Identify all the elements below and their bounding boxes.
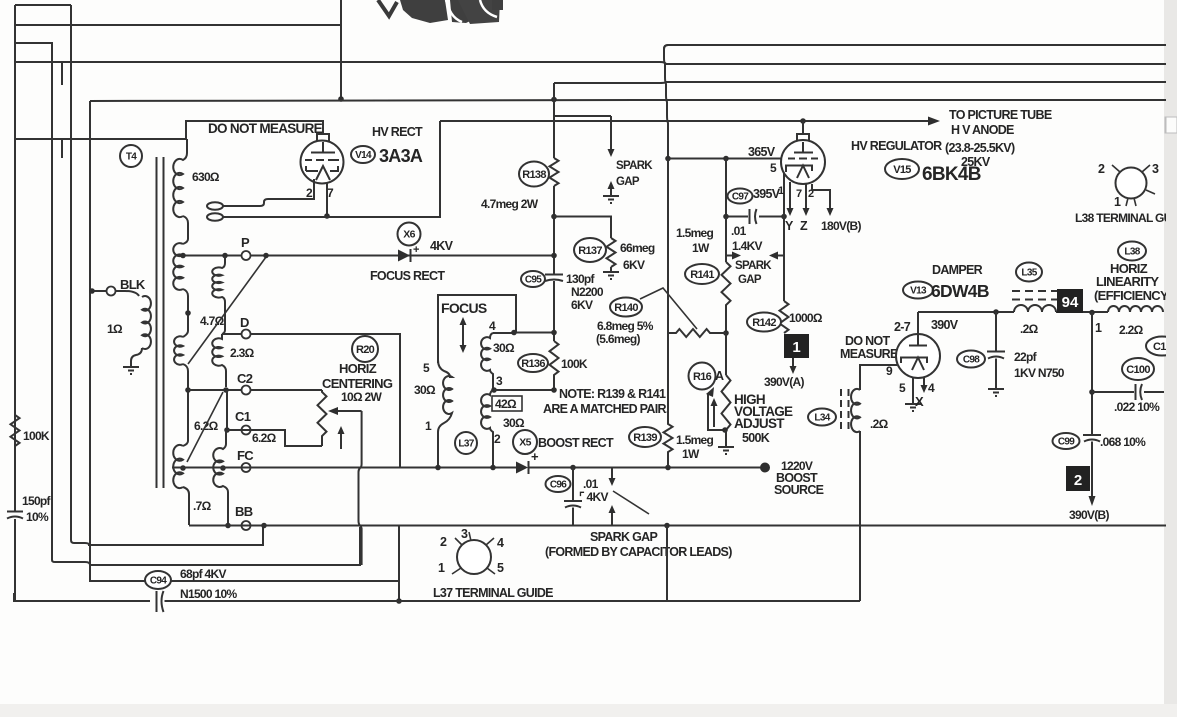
- svg-text:(23.8-25.5KV): (23.8-25.5KV): [945, 141, 1015, 155]
- svg-text:30Ω: 30Ω: [503, 416, 525, 430]
- BLK tap wire: [92, 291, 139, 296]
- R16A wiper: [706, 387, 723, 430]
- wire R137 branch: [554, 217, 611, 239]
- spark gap upper arrow: [610, 116, 612, 150]
- wire spark gap branch top: [554, 115, 611, 117]
- V13 plate: [909, 336, 927, 346]
- junction L38: [1089, 310, 1095, 316]
- svg-text:1: 1: [425, 419, 432, 433]
- svg-text:.01: .01: [583, 477, 599, 491]
- V15 topcap stub: [797, 121, 809, 142]
- svg-text:.01: .01: [731, 224, 747, 238]
- svg-text:42Ω: 42Ω: [495, 397, 517, 411]
- wire bottom line y601: [14, 593, 860, 601]
- BLK terminal: [107, 287, 116, 296]
- V15 plate: [794, 142, 813, 153]
- junction boost x438: [435, 465, 441, 471]
- svg-text:1.5meg: 1.5meg: [676, 433, 714, 447]
- svg-text:1Ω: 1Ω: [107, 322, 123, 336]
- diode X5 boost rect: [516, 461, 529, 474]
- R20 wiper arrow: [328, 407, 362, 415]
- spark gap capacitor leads up arrow: [611, 512, 613, 525]
- junction boost x573: [570, 465, 576, 471]
- junction 365V: [665, 156, 671, 162]
- wire x668 down to R140 junction: [667, 159, 669, 334]
- resistor R138: [550, 158, 559, 186]
- svg-text:C1: C1: [235, 409, 251, 424]
- svg-text:68pf 4KV: 68pf 4KV: [180, 567, 226, 581]
- wire rail x90 down to y581 then right to x399: [90, 101, 399, 581]
- wire cathode line y216 to box right riser: [223, 121, 440, 217]
- svg-text:4KV: 4KV: [430, 239, 454, 253]
- svg-text:1.4KV: 1.4KV: [732, 239, 763, 253]
- wire riser x667 BB to bottom: [666, 526, 668, 602]
- leader diagonal P to winding: [188, 257, 266, 364]
- wire 365V line: [668, 158, 781, 160]
- wire R137 to ground: [610, 267, 612, 272]
- resistor 100K left rail: [11, 415, 20, 446]
- svg-text:6.2Ω: 6.2Ω: [252, 431, 277, 445]
- boost source terminal: [760, 463, 770, 473]
- svg-text:SOURCE: SOURCE: [774, 483, 824, 497]
- svg-text:C100: C100: [1126, 364, 1150, 376]
- svg-text:180V(B): 180V(B): [821, 219, 861, 233]
- L37 terminal guide circle: [452, 532, 495, 574]
- svg-text:R139: R139: [633, 432, 657, 444]
- L35 core dashes: [1012, 291, 1057, 300]
- BB terminal: [242, 521, 251, 530]
- capacitor C99: [1083, 435, 1101, 497]
- wire terminal 4: [493, 332, 516, 334]
- T4 winding stub 1: [183, 216, 188, 244]
- svg-text:R138: R138: [522, 169, 546, 181]
- svg-text:4: 4: [497, 536, 504, 550]
- svg-text:FC: FC: [237, 448, 254, 463]
- svg-text:FOCUS: FOCUS: [441, 300, 487, 316]
- svg-text:1: 1: [1095, 321, 1102, 335]
- svg-text:⌜ 4KV: ⌜ 4KV: [579, 490, 608, 504]
- svg-text:10Ω 2W: 10Ω 2W: [341, 390, 382, 404]
- svg-text:1: 1: [438, 561, 445, 575]
- L37 designation: [455, 432, 477, 454]
- wire x860 down to bottom line: [859, 431, 861, 601]
- V14 cathode heater: [306, 166, 338, 180]
- wire pin2 to 180V: [812, 184, 830, 196]
- FOCUS box outline: [438, 295, 516, 363]
- svg-text:L34: L34: [814, 413, 830, 424]
- T4 winding bottom to BB: [183, 487, 189, 525]
- wire C97 line: [726, 216, 784, 218]
- wire V13 top: [917, 312, 919, 336]
- junction P line left: [180, 253, 186, 259]
- junction C97 left: [723, 214, 729, 220]
- junction P line right: [263, 253, 269, 259]
- potentiometer R20 body: [318, 390, 327, 446]
- svg-text:390V: 390V: [931, 318, 959, 332]
- spark gap arrows mid: [726, 252, 784, 260]
- junction FC tap right: [220, 465, 226, 471]
- svg-text:2: 2: [1098, 162, 1105, 176]
- svg-text:6DW4B: 6DW4B: [931, 281, 989, 301]
- L34 designation: [808, 409, 836, 426]
- wire C2 to C1 riser: [226, 390, 228, 430]
- svg-text:ARE A MATCHED PAIR.: ARE A MATCHED PAIR.: [543, 402, 669, 416]
- winding P-D (right column upper): [212, 256, 225, 335]
- resistor R137: [607, 238, 616, 267]
- R20 adjust arrow: [340, 433, 342, 449]
- svg-text:GAP: GAP: [616, 176, 640, 188]
- label 42ohm boxed: [492, 396, 522, 411]
- C97 designation: [728, 189, 753, 204]
- svg-text:HV RECT: HV RECT: [372, 125, 423, 139]
- transformer T4 designation: [120, 145, 142, 167]
- wire bus y64 right section (jog at x664): [660, 62, 1177, 64]
- svg-text:1000Ω: 1000Ω: [789, 311, 823, 325]
- svg-text:150pf: 150pf: [22, 494, 52, 508]
- V14 plate: [311, 142, 335, 153]
- junction BB x667: [664, 523, 670, 529]
- wire bus y83 from x554 riser: [554, 82, 1177, 83]
- terminal box 2: [1066, 466, 1090, 491]
- svg-text:1KV N750: 1KV N750: [1014, 366, 1065, 380]
- winding 2.3ohm: [212, 334, 226, 387]
- svg-text:P: P: [241, 235, 250, 250]
- wire tick x62 upper: [61, 63, 63, 85]
- svg-text:GAP: GAP: [738, 274, 762, 286]
- resistor R139: [664, 333, 673, 468]
- svg-text:4: 4: [928, 381, 935, 395]
- junction x554 y332: [551, 330, 557, 336]
- svg-text:(FORMED BY CAPACITOR LEADS): (FORMED BY CAPACITOR LEADS): [545, 545, 732, 559]
- svg-text:R16: R16: [693, 371, 712, 383]
- svg-text:630Ω: 630Ω: [192, 170, 220, 184]
- capacitor C95: [545, 275, 563, 282]
- svg-text:BOOST RECT: BOOST RECT: [538, 436, 614, 450]
- diode X6 focus rect: [398, 249, 411, 262]
- C1 line to centering pot bottom: [227, 430, 322, 446]
- V13 cathode: [901, 358, 927, 371]
- wire HV anode line y121: [440, 120, 930, 122]
- svg-text:X: X: [915, 394, 924, 409]
- capacitor C100: [1136, 384, 1143, 400]
- scan edge band right: [1164, 0, 1177, 717]
- arrow 390VA: [792, 358, 794, 367]
- svg-text:FOCUS RECT: FOCUS RECT: [370, 269, 445, 283]
- R142 designation: [747, 313, 781, 332]
- leader spark gap bottom: [613, 491, 649, 514]
- svg-text:R141: R141: [690, 269, 714, 281]
- svg-text:5: 5: [423, 361, 430, 375]
- junction FC tap left: [180, 465, 186, 471]
- svg-text:3: 3: [496, 374, 503, 388]
- svg-text:9: 9: [886, 364, 893, 378]
- wire R141 to pot: [725, 333, 727, 375]
- arrow Z: [805, 183, 807, 196]
- svg-text:C96: C96: [550, 480, 567, 491]
- svg-text:1.5meg: 1.5meg: [676, 226, 714, 240]
- L34 core dashes: [841, 389, 849, 431]
- D tap line to R20 riser: [222, 334, 400, 467]
- svg-text:HV REGULATOR: HV REGULATOR: [851, 139, 942, 153]
- junction V15 topcap: [800, 118, 806, 124]
- svg-text:C94: C94: [150, 576, 167, 587]
- junction BLK: [89, 288, 95, 294]
- C2 terminal: [242, 386, 251, 395]
- wire riser x664 with jogs: [664, 45, 668, 158]
- junction C1: [224, 427, 230, 433]
- svg-text:DAMPER: DAMPER: [932, 263, 983, 277]
- R139 designation: [629, 427, 661, 447]
- junction C100: [1089, 389, 1095, 395]
- winding 1ohm: [142, 296, 151, 349]
- svg-text:130pf: 130pf: [566, 272, 596, 286]
- svg-text:.022 10%: .022 10%: [1114, 400, 1160, 414]
- svg-text:L38: L38: [1124, 247, 1140, 258]
- wire x784 pin to R142: [783, 173, 785, 301]
- C1 terminal: [242, 426, 251, 435]
- capacitor C96: [564, 468, 582, 526]
- junction C2 tap: [185, 387, 191, 393]
- svg-text:66meg: 66meg: [620, 241, 655, 255]
- spark gap capacitor leads down arrow: [611, 468, 613, 480]
- R141 designation: [685, 264, 719, 284]
- svg-text:395V: 395V: [753, 187, 781, 201]
- junction winding stub y313: [185, 310, 191, 316]
- R16 designation: [689, 363, 716, 390]
- FOCUS adjust double arrow: [460, 317, 467, 353]
- L37 winding 30ohm mid: [481, 333, 493, 390]
- wire x554 riser top: [553, 83, 555, 158]
- svg-text:2.2Ω: 2.2Ω: [1119, 323, 1144, 337]
- svg-text:2.3Ω: 2.3Ω: [230, 346, 255, 360]
- wire BB line y525: [189, 525, 1177, 527]
- R138 designation: [519, 162, 549, 187]
- svg-text:V13: V13: [910, 286, 927, 297]
- junction boost x493: [490, 465, 496, 471]
- junction boost x668: [665, 465, 671, 471]
- svg-text:SPARK: SPARK: [735, 260, 772, 272]
- wire stub y43 and rail x52 down to y562 then right: [15, 43, 360, 565]
- svg-text:A: A: [715, 369, 724, 383]
- svg-text:R136: R136: [521, 358, 545, 370]
- svg-text:NOTE: R139 & R141: NOTE: R139 & R141: [559, 387, 666, 401]
- svg-text:500K: 500K: [742, 431, 770, 445]
- svg-text:LINEARITY: LINEARITY: [1096, 274, 1159, 289]
- junction t4 right: [511, 330, 517, 336]
- T4 winding section 3 (4.7ohm): [174, 336, 183, 364]
- svg-text:2: 2: [1074, 472, 1082, 489]
- FC terminal: [242, 463, 251, 472]
- spark gap lower arrow: [610, 188, 612, 196]
- junction R141 bottom: [723, 330, 729, 336]
- svg-text:H V ANODE: H V ANODE: [951, 123, 1014, 137]
- T4 winding stub 2: [183, 289, 188, 337]
- wire bus y100 from x90 corner: [90, 100, 1177, 101]
- heater pigtail lower: [207, 213, 223, 221]
- svg-text:6.8meg 5%: 6.8meg 5%: [597, 319, 654, 333]
- ground spark gap: [603, 196, 619, 203]
- svg-text:7: 7: [327, 186, 334, 200]
- photo fragment top center: [378, 0, 503, 24]
- L34 winding: [851, 389, 860, 432]
- svg-text:94: 94: [1062, 294, 1079, 311]
- wire damper top line y312: [918, 311, 1108, 313]
- svg-text:DO NOT: DO NOT: [845, 334, 890, 348]
- resistor R141: [722, 262, 731, 333]
- D terminal: [242, 330, 251, 339]
- wire bus y45 right from riser x664: [664, 45, 1177, 49]
- svg-text:3: 3: [461, 527, 468, 541]
- svg-text:C97: C97: [732, 192, 749, 203]
- svg-text:TO PICTURE TUBE: TO PICTURE TUBE: [949, 108, 1052, 122]
- svg-text:5: 5: [899, 381, 906, 395]
- P tap line with X6: [183, 255, 554, 257]
- wire rail x71 down to y542 then right to BB riser: [71, 5, 263, 545]
- wire t4 to C95 column: [516, 332, 554, 334]
- svg-text:DO NOT MEASURE: DO NOT MEASURE: [208, 121, 323, 136]
- junction pin7: [324, 213, 330, 219]
- wire bus y62 left section: [15, 61, 660, 63]
- transformer core: [157, 157, 164, 488]
- resistor R140 horizontal: [668, 329, 726, 337]
- svg-text:2: 2: [440, 535, 447, 549]
- scan edge band bottom overlay: [0, 704, 1177, 717]
- junction BB mid: [225, 523, 231, 529]
- svg-text:SPARK GAP: SPARK GAP: [590, 530, 657, 544]
- svg-text:R142: R142: [752, 317, 776, 329]
- svg-text:.068 10%: .068 10%: [1100, 435, 1146, 449]
- svg-text:6KV: 6KV: [623, 258, 645, 272]
- scan edge band bottom: [0, 704, 1177, 717]
- wire x726 through spark gap: [725, 217, 727, 263]
- svg-text:X5: X5: [519, 437, 531, 449]
- wire C100 line: [1092, 391, 1164, 393]
- tube V13 envelope: [896, 334, 940, 378]
- leader R140: [640, 288, 697, 329]
- svg-text:22pf: 22pf: [1014, 350, 1038, 364]
- svg-text:2-7: 2-7: [894, 320, 911, 334]
- C95 designation: [521, 271, 545, 287]
- svg-text:100K: 100K: [23, 429, 50, 443]
- wire V13 pin9: [860, 365, 897, 390]
- R16A adjust arrow: [713, 405, 715, 427]
- L35 coil: [1014, 305, 1056, 312]
- svg-text:Z: Z: [800, 219, 808, 233]
- terminal box 1: [784, 334, 809, 358]
- L37 winding 30ohm left: [438, 360, 452, 467]
- V14 grid: [305, 159, 339, 161]
- C99 designation: [1053, 433, 1080, 449]
- wire y139 line into DO NOT MEASURE box top: [15, 121, 323, 139]
- junction x399 y601: [396, 598, 402, 604]
- junction 365V x726: [723, 156, 729, 162]
- svg-text:N1500 10%: N1500 10%: [180, 587, 237, 601]
- V13 pin4 arrow: [923, 378, 925, 386]
- wire 100K link: [494, 389, 554, 391]
- V14 designation: [351, 146, 375, 163]
- svg-text:1W: 1W: [692, 241, 710, 255]
- svg-text:BLK: BLK: [120, 277, 146, 292]
- T4 primary winding 630ohm section: [173, 139, 187, 217]
- svg-text:C99: C99: [1058, 437, 1075, 448]
- svg-text:1: 1: [778, 185, 784, 197]
- svg-text:1: 1: [792, 339, 800, 356]
- svg-text:MEASURE: MEASURE: [840, 347, 898, 361]
- svg-text:5: 5: [497, 561, 504, 575]
- svg-text:390V(B): 390V(B): [1069, 508, 1109, 522]
- svg-text:L37: L37: [458, 439, 474, 450]
- svg-text:1: 1: [1114, 195, 1121, 209]
- svg-text:10%: 10%: [26, 510, 49, 524]
- L38 designation: [1118, 242, 1146, 261]
- tube V15 envelope: [781, 140, 825, 184]
- junction BB right: [261, 523, 267, 529]
- svg-text:3A3A: 3A3A: [379, 146, 423, 166]
- svg-text:.2Ω: .2Ω: [870, 417, 889, 431]
- svg-text:HORIZ: HORIZ: [339, 361, 377, 376]
- svg-text:30Ω: 30Ω: [493, 341, 515, 355]
- svg-text:R140: R140: [614, 302, 638, 314]
- T4 winding section 2: [173, 243, 183, 290]
- resistor R142: [780, 301, 789, 333]
- wire R20 wiper down to y565 line: [359, 411, 362, 565]
- svg-text:L35: L35: [1021, 268, 1037, 279]
- wire V14 pin2 heater: [223, 179, 314, 206]
- heater pigtail upper: [207, 202, 223, 210]
- svg-text:C95: C95: [525, 275, 542, 286]
- C101 designation cut: [1146, 337, 1177, 356]
- L38 terminal guide circle: [1112, 165, 1155, 206]
- arrowhead to picture tube: [928, 117, 940, 126]
- tube V14 envelope: [301, 141, 344, 184]
- junction x341 y99: [338, 96, 344, 102]
- junction C2 mid: [223, 387, 229, 393]
- junction x554 y255: [551, 253, 557, 259]
- junction C97 right: [781, 214, 787, 220]
- L35 designation: [1016, 263, 1042, 282]
- L37 winding 42ohm: [481, 390, 493, 467]
- P terminal: [242, 251, 251, 260]
- R140 designation: [610, 298, 642, 317]
- svg-text:390V(A): 390V(A): [764, 375, 804, 389]
- svg-text:V15: V15: [893, 164, 911, 176]
- svg-text:SPARK: SPARK: [616, 160, 653, 172]
- wire x554 mid: [553, 186, 555, 274]
- svg-text:ADJUST: ADJUST: [734, 416, 785, 431]
- V13 pin5 to ground: [912, 377, 914, 404]
- C94 designation: [145, 571, 171, 589]
- wire boost-FC line y467: [172, 467, 762, 469]
- leader diagonal C2 to winding: [187, 392, 223, 462]
- junction C98: [993, 309, 999, 315]
- svg-text:4: 4: [489, 319, 496, 333]
- svg-text:2: 2: [306, 186, 313, 200]
- terminal box 94: [1057, 289, 1083, 313]
- wire x554 below C95: [553, 281, 555, 341]
- R136 designation: [518, 354, 548, 372]
- svg-text:1W: 1W: [682, 447, 700, 461]
- wire x1092 down: [1091, 312, 1093, 434]
- scan edge band right overlay: [1166, 0, 1177, 717]
- svg-text:+: +: [413, 244, 419, 256]
- capacitor C98: [987, 312, 1005, 389]
- svg-text:365V: 365V: [748, 145, 776, 159]
- L38 coil: [1108, 306, 1163, 312]
- svg-text:4.7Ω: 4.7Ω: [200, 314, 225, 328]
- svg-text:CENTERING: CENTERING: [322, 376, 393, 391]
- junction P line mid: [222, 253, 228, 259]
- svg-text:X6: X6: [403, 229, 415, 241]
